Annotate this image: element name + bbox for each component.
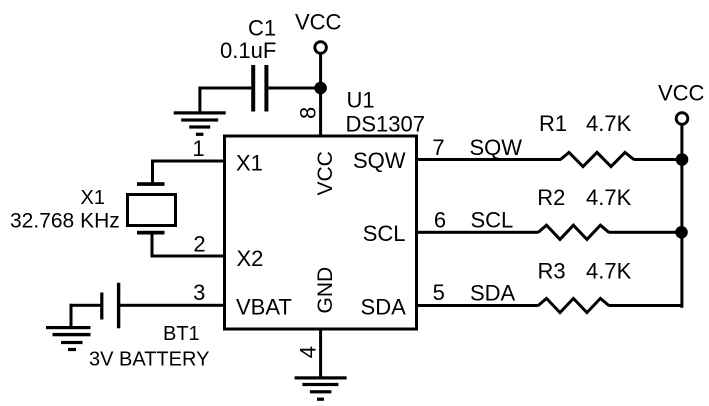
label R2	[537, 185, 565, 210]
svg-text:5: 5	[433, 280, 445, 305]
svg-text:8: 8	[296, 107, 321, 119]
wire	[609, 231, 683, 234]
pin 5	[433, 280, 445, 305]
svg-text:BT1: BT1	[163, 323, 200, 345]
battery BT1	[100, 283, 120, 329]
wire	[70, 304, 73, 327]
wire	[417, 304, 539, 307]
svg-text:VBAT: VBAT	[236, 295, 292, 320]
pin label X2	[237, 246, 264, 271]
svg-text:SQW: SQW	[470, 135, 523, 160]
wire	[417, 231, 539, 234]
wire	[417, 158, 562, 161]
junction	[676, 153, 689, 166]
capacitor C1	[251, 65, 268, 112]
label DS1307	[346, 111, 426, 136]
pin label VCC	[314, 151, 337, 195]
svg-text:4: 4	[296, 346, 321, 358]
value 32.768 KHz	[10, 210, 120, 233]
junction	[675, 226, 688, 239]
wire	[151, 160, 226, 163]
ground	[46, 326, 91, 351]
pin 8	[296, 107, 321, 119]
svg-text:3V BATTERY: 3V BATTERY	[89, 348, 209, 370]
wire	[319, 54, 322, 135]
pin label SDA	[361, 295, 407, 320]
power VCC	[658, 80, 705, 124]
svg-text:SCL: SCL	[471, 208, 514, 233]
svg-text:4.7K: 4.7K	[586, 111, 632, 136]
resistor R3	[538, 298, 609, 312]
label U1	[347, 88, 375, 113]
pin label SCL	[363, 221, 406, 246]
pin 7	[432, 135, 444, 160]
svg-text:7: 7	[432, 135, 444, 160]
svg-text:VCC: VCC	[658, 80, 705, 105]
svg-text:4.7K: 4.7K	[586, 185, 632, 210]
svg-text:3: 3	[193, 280, 205, 305]
pin 3	[193, 280, 205, 305]
svg-text:R1: R1	[539, 111, 567, 136]
label X1	[81, 187, 105, 209]
ground	[174, 111, 226, 136]
pin 6	[434, 208, 446, 233]
svg-text:R2: R2	[537, 185, 565, 210]
wire	[198, 87, 251, 90]
power VCC	[295, 10, 342, 54]
resistor R2	[538, 225, 609, 239]
wire	[151, 255, 226, 258]
svg-text:C1: C1	[248, 16, 276, 41]
svg-text:VCC: VCC	[295, 10, 342, 35]
pin label GND	[314, 267, 337, 314]
wire	[680, 125, 683, 308]
label R3	[538, 259, 566, 284]
value 4.7K	[586, 259, 632, 284]
wire	[198, 87, 201, 112]
svg-text:X1: X1	[236, 150, 263, 175]
ground	[295, 376, 347, 401]
node SQW	[470, 135, 523, 160]
svg-text:0.1uF: 0.1uF	[220, 38, 276, 63]
wire	[151, 233, 154, 258]
op-amp U1	[225, 136, 417, 329]
svg-text:4.7K: 4.7K	[586, 259, 632, 284]
pin label SQW	[353, 148, 406, 173]
wire	[319, 329, 322, 377]
svg-text:SDA: SDA	[361, 295, 407, 320]
svg-text:VCC: VCC	[314, 151, 337, 195]
wire	[634, 158, 683, 161]
resistor R1	[561, 152, 634, 166]
wire	[268, 87, 320, 90]
wire	[120, 304, 226, 307]
svg-text:SQW: SQW	[353, 148, 406, 173]
value 3V BATTERY	[89, 348, 209, 370]
svg-text:U1: U1	[347, 88, 375, 113]
label R1	[539, 111, 567, 136]
label BT1	[163, 323, 200, 345]
svg-text:SDA: SDA	[470, 281, 516, 306]
wire	[151, 160, 154, 186]
svg-text:X1: X1	[81, 187, 105, 209]
svg-text:R3: R3	[538, 259, 566, 284]
pin label VBAT	[236, 295, 292, 320]
node SCL	[471, 208, 514, 233]
value 4.7K	[586, 111, 632, 136]
value 4.7K	[586, 185, 632, 210]
svg-text:GND: GND	[314, 267, 337, 314]
pin 4	[296, 346, 321, 358]
wire	[609, 304, 683, 307]
svg-text:X2: X2	[237, 246, 264, 271]
svg-text:1: 1	[192, 136, 204, 161]
value 0.1uF	[220, 38, 276, 63]
pin 1	[192, 136, 204, 161]
svg-text:32.768 KHz: 32.768 KHz	[10, 210, 120, 233]
svg-text:2: 2	[193, 231, 205, 256]
node SDA	[470, 281, 516, 306]
label C1	[248, 16, 276, 41]
pin label X1	[236, 150, 263, 175]
crystal X1	[128, 182, 176, 234]
svg-text:DS1307: DS1307	[346, 111, 426, 136]
pin 2	[193, 231, 205, 256]
wire	[70, 304, 101, 307]
svg-text:SCL: SCL	[363, 221, 406, 246]
junction	[314, 82, 327, 95]
svg-text:6: 6	[434, 208, 446, 233]
